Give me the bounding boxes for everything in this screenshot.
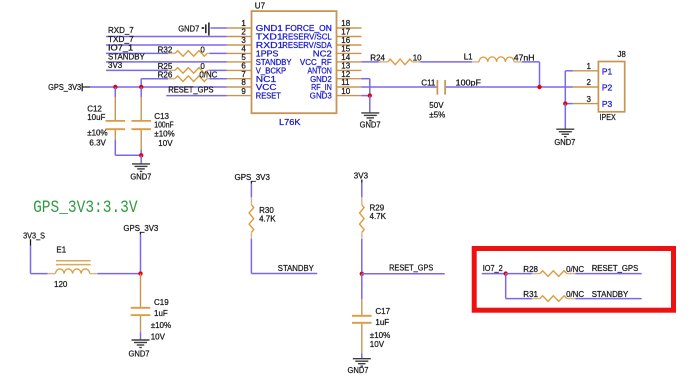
svg-text:L76K: L76K [279, 117, 301, 127]
node junction L1/antenna [537, 85, 541, 89]
U7 left pin stubs 1-9 [227, 28, 252, 96]
svg-text:P3: P3 [602, 99, 613, 109]
svg-text:P1: P1 [602, 66, 613, 76]
svg-text:RESET_GPS: RESET_GPS [389, 264, 433, 273]
svg-text:IO7_1: IO7_1 [108, 44, 134, 53]
ground GND7 under U7 [360, 113, 382, 130]
svg-text:TXD_7: TXD_7 [108, 35, 134, 44]
ground GND7 under C17 [348, 359, 371, 375]
wire to J8 pin1 [565, 70, 573, 72]
wire GPS_3V3 rail to pin8 [90, 86, 227, 88]
svg-text:6.3V: 6.3V [89, 139, 106, 148]
net label TXD_7 [108, 35, 134, 44]
node junction GND2/GND3 [368, 93, 372, 97]
inductor L1 [464, 53, 535, 63]
svg-text:±10%: ±10% [87, 128, 107, 137]
svg-text:STANDBY: STANDBY [592, 290, 629, 299]
svg-text:RESET_GPS: RESET_GPS [168, 86, 213, 95]
wire R29 down to node [361, 239, 363, 274]
svg-text:3V3: 3V3 [108, 61, 123, 70]
svg-text:C19: C19 [154, 298, 169, 307]
node junction GPS_3V3 / C12 [113, 85, 117, 89]
resistor R26 [158, 71, 218, 82]
resistor R31 [523, 290, 584, 302]
net label RESET_GPS [168, 86, 213, 95]
svg-text:4.7K: 4.7K [370, 212, 387, 221]
svg-text:GPS_3V3:3.3V: GPS_3V3:3.3V [33, 198, 138, 218]
node junction C12/C13 ground [139, 153, 143, 157]
svg-text:J8: J8 [617, 50, 626, 59]
resistor R28 [523, 265, 584, 276]
U7 right pin names [282, 24, 332, 101]
wire R31 to STANDBY [575, 298, 641, 300]
capacitor C13 [131, 87, 174, 155]
svg-text:GND7: GND7 [130, 172, 152, 181]
wire STANDBY to pin5 [106, 61, 227, 63]
svg-text:P2: P2 [602, 83, 613, 93]
IC U7 (L76K GPS module) [252, 2, 337, 127]
svg-text:2: 2 [587, 78, 592, 87]
wire node to RESET_GPS [362, 273, 445, 275]
node junction GPS_3V3 / C13 [139, 85, 143, 89]
svg-text:3: 3 [587, 95, 592, 104]
wire R28 to RESET_GPS [575, 273, 641, 275]
svg-text:RESET: RESET [256, 92, 281, 101]
wire pin11 RF_IN to C11 [362, 86, 437, 88]
svg-text:10V: 10V [370, 340, 385, 349]
wire pin10 GND3 [362, 95, 370, 97]
wire to J8 pin3 [565, 103, 573, 105]
net label RXD_7 [108, 26, 134, 35]
node junction J8 pin3/ground [563, 101, 567, 105]
svg-text:0/NC: 0/NC [566, 290, 584, 299]
svg-text:RXD_7: RXD_7 [108, 26, 134, 35]
svg-text:47nH: 47nH [514, 53, 535, 62]
svg-text:50V: 50V [429, 101, 444, 110]
wire down to ground [369, 96, 371, 113]
net label 3V3 (R29) [354, 171, 369, 182]
svg-text:±10%: ±10% [370, 331, 390, 340]
node junction R29/C17/RESET_GPS [360, 272, 364, 276]
wire TXD_7 to pin3 [106, 44, 227, 46]
resistor R25 [158, 62, 210, 73]
wire R26 left leg down to GPS_3V3 rail [141, 78, 168, 80]
wire J8 vertical bus [564, 71, 566, 104]
svg-text:10V: 10V [158, 139, 173, 148]
svg-text:±10%: ±10% [154, 129, 174, 138]
wire IO7_1 to R32 [106, 52, 168, 54]
node junction E1/C19 [138, 271, 142, 275]
wire C12 bottom to gnd node [115, 154, 141, 156]
svg-text:100nF: 100nF [154, 121, 173, 130]
wire node to R28 [506, 273, 532, 275]
svg-text:L1: L1 [464, 53, 473, 62]
wire J8 to ground [564, 104, 566, 129]
svg-text:R28: R28 [523, 265, 538, 274]
wire L1 down to antenna line [522, 61, 540, 63]
wire R24 to L1 [420, 61, 472, 63]
resistor R32 [158, 45, 210, 56]
connector J8 (IPEX) [598, 50, 626, 122]
net label 3V3_S [23, 231, 45, 245]
svg-text:U7: U7 [255, 2, 266, 11]
svg-text:GND7: GND7 [129, 349, 151, 358]
wire E1 to GPS_3V3 node [98, 273, 141, 275]
ferrite bead E1 [48, 245, 98, 289]
capacitor C19 [131, 274, 171, 342]
wire pin12 GND2 down [362, 78, 370, 80]
ground GND7 under C12/C13 [130, 164, 152, 181]
svg-text:1uF: 1uF [154, 309, 168, 318]
J8 pin names P1 P2 P3 [602, 66, 613, 109]
wire GND7 to pin1 [210, 27, 226, 29]
svg-text:C11: C11 [421, 79, 436, 88]
net label GPS_3V3 (mid) [123, 224, 158, 235]
svg-text:R31: R31 [523, 290, 538, 299]
wire IO7_2 to node [482, 273, 506, 275]
net label 3V3 [108, 61, 123, 70]
wire C11 to J8 [446, 86, 573, 88]
resistor R24 [370, 53, 422, 64]
svg-text:1uF: 1uF [375, 318, 389, 327]
svg-text:0: 0 [200, 45, 205, 54]
net label GPS_3V3 (R30) [235, 173, 271, 183]
wire R26 to pin7 [210, 78, 227, 80]
svg-text:GND7: GND7 [554, 138, 576, 147]
svg-text:STANDBY: STANDBY [278, 264, 315, 273]
svg-text:3V3: 3V3 [354, 171, 369, 180]
wire pin14 to R24 [362, 61, 379, 63]
net label GPS_3V3 [48, 83, 90, 92]
wire RXD_7 to pin2 [106, 36, 227, 38]
highlight red rectangle [474, 249, 673, 311]
wire label to R30 [250, 184, 252, 198]
U7 right pin numbers 18-10 [341, 19, 350, 96]
J8 pin numbers [587, 62, 592, 104]
svg-text:0/NC: 0/NC [566, 265, 584, 274]
svg-text:1: 1 [587, 62, 592, 71]
net label IO7_1 [108, 44, 134, 53]
svg-text:10V: 10V [151, 333, 166, 342]
svg-text:10: 10 [413, 53, 422, 62]
svg-text:120: 120 [54, 280, 68, 289]
svg-text:±5%: ±5% [429, 111, 445, 120]
svg-text:3V3_S: 3V3_S [23, 231, 45, 240]
ground GND7 under C19 [129, 340, 151, 358]
resistor R30 [249, 197, 276, 239]
svg-text:RESET_GPS: RESET_GPS [592, 264, 639, 273]
svg-text:R24: R24 [370, 53, 385, 62]
capacitor C11 [421, 79, 481, 120]
capacitor C12 [87, 87, 125, 155]
svg-text:STANDBY: STANDBY [108, 52, 145, 61]
wire GPS_3V3 label down to node [140, 234, 142, 273]
svg-text:4.7K: 4.7K [259, 214, 276, 223]
wire label to R29 [361, 183, 363, 198]
svg-text:IPEX: IPEX [600, 113, 617, 122]
wire RESET_GPS to pin9 [166, 95, 226, 97]
svg-text:E1: E1 [56, 245, 66, 254]
net label STANDBY [108, 52, 145, 61]
wire R32 to pin4 [210, 52, 227, 54]
wire 3V3 to R25 [106, 69, 168, 71]
U7 left pin names [256, 24, 292, 101]
svg-text:IO7_2: IO7_2 [483, 264, 504, 273]
svg-text:10: 10 [341, 87, 350, 96]
svg-text:GND7: GND7 [360, 121, 382, 130]
node junction IO7_2 [504, 271, 508, 275]
J8 pin stubs [573, 71, 599, 104]
wire IO7_2 node down to R31 [505, 274, 507, 299]
svg-text:GND7: GND7 [348, 366, 370, 375]
svg-text:±10%: ±10% [151, 321, 171, 330]
svg-text:GPS_3V3: GPS_3V3 [123, 224, 158, 233]
ground GND7 under J8 [554, 129, 576, 147]
power port GND7 (bar style) at U7 pin 1 [178, 23, 209, 36]
wire R25 to pin6 [210, 69, 227, 71]
wire R30 down and right to STANDBY [250, 239, 252, 274]
wire to ground [140, 155, 142, 163]
svg-text:GND3: GND3 [310, 92, 333, 101]
svg-text:10uF: 10uF [87, 113, 105, 122]
svg-text:9: 9 [241, 87, 246, 96]
wire 3V3_S down and to E1 [30, 246, 32, 274]
capacitor C17 [352, 274, 391, 359]
svg-text:GPS_3V3: GPS_3V3 [235, 173, 271, 182]
svg-text:GND7: GND7 [178, 24, 200, 33]
resistor R29 [360, 197, 387, 239]
U7 left pin numbers 1-9 [241, 19, 246, 96]
svg-text:GPS_3V3: GPS_3V3 [48, 83, 82, 92]
svg-text:C17: C17 [375, 307, 390, 316]
U7 right pin stubs 18-10 [337, 28, 362, 96]
